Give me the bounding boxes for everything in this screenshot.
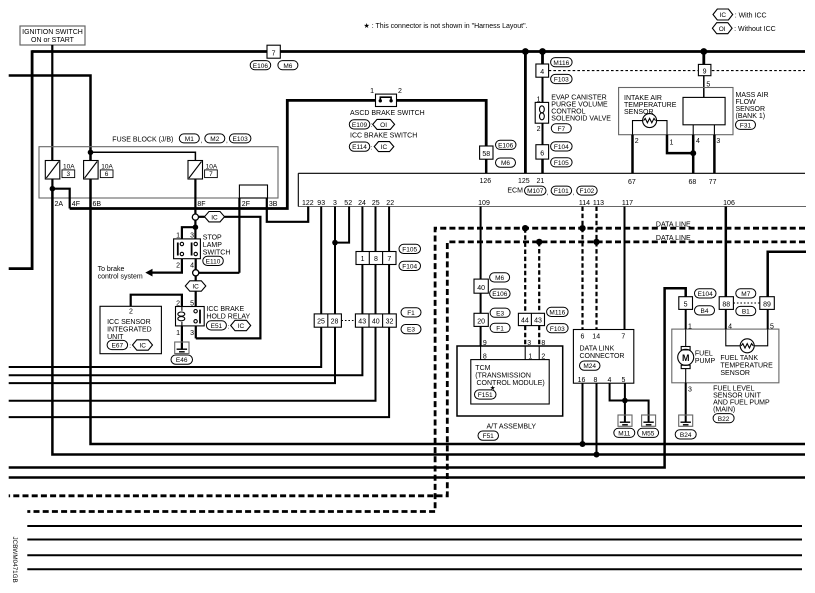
EVAP canister purge volume control solenoid valve coil [535,102,548,123]
connector row 43/40/32 [355,314,396,327]
connector F103 oval [547,324,569,333]
svg-text:SOLENOID VALVE: SOLENOID VALVE [551,115,611,122]
svg-text:5: 5 [622,377,626,384]
svg-text:117: 117 [622,200,633,207]
svg-text:M11: M11 [618,430,631,437]
svg-text:4: 4 [540,69,544,76]
svg-text:E3: E3 [496,310,504,317]
connector E104 oval [695,289,717,298]
svg-text:M: M [682,353,690,363]
connector E103 [229,134,251,143]
fuse block box [39,147,278,198]
svg-text:E106: E106 [498,142,514,149]
svg-text::: : [228,323,230,330]
svg-text:113: 113 [593,200,604,207]
svg-text:7: 7 [209,171,213,178]
wire 4F branch [52,189,69,209]
svg-text:CONTROL MODULE): CONTROL MODULE) [477,380,545,387]
wire ECM 93 to left edge [9,207,322,368]
svg-text:F103: F103 [554,77,569,84]
junction on bus for EVAP [539,48,546,55]
svg-text:10A: 10A [206,163,218,170]
svg-text:TCM: TCM [475,365,490,372]
svg-text:(BANK 1): (BANK 1) [736,113,766,120]
svg-text:To brake: To brake [98,266,125,273]
fuse F3 10A [45,161,75,180]
junction data line 2 TCM [536,239,542,245]
dashed wire to connector 44 [524,228,526,313]
branch to ground M55 [625,401,649,423]
wire 20 to A/T assembly pin 9 [480,326,482,346]
svg-text:F7: F7 [558,126,566,133]
svg-text:FUEL: FUEL [695,350,713,357]
svg-text:4: 4 [728,323,732,330]
connector F102 [577,186,598,195]
dotted link 28 to 43 [341,320,355,322]
svg-text:3: 3 [190,233,194,240]
svg-text:7: 7 [621,333,625,340]
mass air flow sensor box [619,88,733,135]
svg-text:88: 88 [722,302,730,309]
svg-text:6: 6 [540,150,544,157]
svg-text:F1: F1 [407,310,415,317]
connector F104 oval [551,142,573,151]
svg-text:126: 126 [480,178,492,185]
wire 4F bus to brake switch [70,100,376,208]
svg-text:CONNECTOR: CONNECTOR [580,353,625,360]
svg-text:HOLD RELAY: HOLD RELAY [206,314,250,321]
svg-text:122: 122 [302,200,314,207]
svg-text:4: 4 [190,263,194,270]
wire 89 feed from right edge [768,252,806,297]
wire bus to connector 9 [702,52,705,65]
svg-text:F105: F105 [402,247,417,254]
ground E46 [171,342,193,364]
TCM box [471,360,549,404]
connector M107 [525,186,549,197]
svg-text:ON or START: ON or START [31,37,75,44]
svg-text:1: 1 [370,88,374,95]
connector 20 [474,313,488,326]
wire bus to ECM pin 125 [524,52,527,174]
wire brake switch to connector 58 [397,100,487,146]
data line 1 [27,228,805,511]
connector M7 oval [736,289,756,298]
ICC sensor integrated unit E67 [100,306,161,353]
svg-text:1: 1 [176,330,180,337]
svg-text:M6: M6 [283,63,292,70]
connector E3 oval [490,308,510,317]
connector 6 [536,145,549,159]
wire ECM 106 to connector 88 [725,207,728,297]
data link connector M24 [573,330,633,384]
svg-text:FUEL LEVEL: FUEL LEVEL [713,385,754,392]
svg-text:E103: E103 [233,136,249,143]
option connector circle pin4 [193,270,199,276]
wire 8F to stop lamp switch [194,179,196,214]
stop lamp switch E110 [174,239,201,259]
svg-text:E110: E110 [206,259,221,266]
svg-text:43: 43 [534,318,542,325]
svg-text:SENSOR UNIT: SENSOR UNIT [713,392,762,399]
wire ECM 3 down [334,207,336,243]
svg-text:IC: IC [192,284,199,291]
svg-text:FUEL TANK: FUEL TANK [720,355,758,362]
wire 40 to 20 [480,293,482,313]
svg-text:B24: B24 [680,432,692,439]
svg-text:58: 58 [482,151,490,158]
svg-text:E106: E106 [253,63,269,70]
wire 88 to pin 4 [725,309,727,329]
connector 40 [474,279,488,293]
svg-text:7: 7 [272,50,276,57]
wire bus to connector 4 [541,52,544,65]
wire IAT pin 2 to ECM 67 [633,121,643,135]
svg-text:A/T ASSEMBLY: A/T ASSEMBLY [487,424,537,431]
wire branch to fuse 3 [91,152,196,161]
wire to stop lamp pin 3 [194,227,196,239]
bottom solid line 3 [27,554,802,556]
wire connector 9 to MAF pin 5 [703,76,705,98]
connector F1 oval [401,308,421,317]
wire pin3 to left edge [9,243,335,384]
wire feed to fuse 2 from left edge [9,76,91,162]
svg-text:IGNITION SWITCH: IGNITION SWITCH [22,29,83,36]
svg-text:M107: M107 [527,188,544,195]
svg-text:IC: IC [139,343,146,350]
dashed wire ECM 113 to DLC pin 14 [595,207,597,330]
wire DLC 8 down [596,383,598,454]
svg-text:1: 1 [176,233,180,240]
svg-text:2: 2 [176,300,180,307]
svg-text:DATA LINK: DATA LINK [580,346,615,353]
svg-text:8F: 8F [197,201,205,208]
svg-text:AND FUEL PUMP: AND FUEL PUMP [713,399,770,406]
svg-text:22: 22 [386,200,394,207]
fuel pump motor [678,329,694,383]
ground M11 [614,415,635,437]
wire ECM 117 to DLC pin 7 [624,207,626,330]
svg-text:109: 109 [478,200,490,207]
svg-text:77: 77 [709,179,717,186]
svg-text:M116: M116 [549,310,565,317]
wire fuel pump feed from left edge [9,288,686,467]
svg-text:B22: B22 [718,416,730,423]
wire connector4 to EVAP solenoid pin1 [542,77,544,102]
svg-text:,: , [572,190,574,197]
long line lower [9,476,805,479]
data line 2 [9,242,805,496]
junction on bus for MAF [700,48,707,55]
IC hexagon on 8F branch [199,216,205,218]
svg-text:89: 89 [763,302,771,309]
svg-text:M6: M6 [501,160,510,167]
wire 8F below circle [194,220,196,227]
svg-text:1: 1 [688,323,692,330]
wire hexagon to relay pin 5 [195,291,197,306]
wire ICC unit pin2 to relay pin 2 [131,295,182,307]
svg-text:3: 3 [66,171,70,178]
wire 6B long run to right [91,179,806,444]
svg-text:F104: F104 [554,144,569,151]
svg-text:3B: 3B [269,201,278,208]
svg-text:5: 5 [770,323,774,330]
wire connector 5 to pump pin 1 [685,309,687,329]
connector M6 oval [278,61,298,70]
wire ECM 25 to left edge [9,207,376,401]
connector E106 oval at 58 [496,140,517,149]
wire solenoid to connector 6 [542,123,544,145]
svg-text:SENSOR: SENSOR [624,109,654,116]
wire ignition to fuse 1 [51,45,53,161]
junction stop lamp feed [193,224,199,230]
junction 2A/4F [50,186,56,192]
svg-text:40: 40 [372,318,380,325]
svg-text:SWITCH: SWITCH [203,249,231,256]
svg-text:B1: B1 [742,309,750,316]
ICC brake hold relay E51 [176,307,205,326]
wire relay pin 1 to ground [181,326,183,349]
svg-text:4: 4 [696,138,700,145]
junction on bus for ECM 125 [522,48,529,55]
svg-text:PURGE VOLUME: PURGE VOLUME [551,101,608,108]
svg-text:68: 68 [689,179,697,186]
svg-text:E104: E104 [698,291,714,298]
svg-text:STOP: STOP [203,234,222,241]
wire MAF pin 3 to ECM 77 [713,125,715,135]
svg-text:M116: M116 [553,60,569,67]
ground B24 [675,415,696,439]
svg-text:DATA LINE: DATA LINE [656,221,691,228]
ignition switch source box [20,26,85,45]
svg-text::: : [129,343,131,350]
connector B1 oval [736,306,756,315]
svg-text:7: 7 [387,256,391,263]
wire DLC 4 to ground joint [610,383,625,400]
junction pins 3/52 [332,240,338,246]
svg-text:IC: IC [238,323,245,330]
svg-text:PUMP: PUMP [695,358,716,365]
svg-text:F1: F1 [496,325,504,332]
connector M116 oval [551,58,573,67]
svg-text:,: , [201,138,203,145]
wire 3B to ECM pin 122 [267,198,308,222]
svg-text:E106: E106 [492,291,508,298]
connector E3 oval [401,325,421,334]
fuse block sub connector box 2F/3B [239,185,267,198]
svg-text:E46: E46 [176,357,188,364]
connector row 44/43 [518,313,544,325]
svg-text:DATA LINE: DATA LINE [656,235,691,242]
dashed wire to connector 43 [538,242,540,313]
legend OI hexagon [712,23,775,34]
wire circle to 2F [199,272,240,274]
svg-text:ICC SENSOR: ICC SENSOR [107,319,151,326]
svg-text:M24: M24 [583,363,596,370]
wire ECM 24 to left edge [9,207,363,376]
svg-text:TEMPERATURE: TEMPERATURE [720,362,773,369]
wires A/T pins to TCM pins 1/2 [524,346,526,360]
wire ECM 22 to left edge [9,207,389,418]
svg-text:28: 28 [331,318,339,325]
wire ECM 109 to TCM [480,207,482,280]
connector 88 [719,297,733,310]
junction MAF ground [690,150,696,156]
ECM strip [298,173,806,206]
svg-text:FUSE BLOCK (J/B): FUSE BLOCK (J/B) [112,137,173,144]
svg-text:2: 2 [129,309,133,316]
svg-text:SENSOR: SENSOR [736,106,766,113]
MAF inner unit [683,97,725,124]
svg-text:IC: IC [720,12,727,19]
svg-text:25: 25 [317,318,325,325]
svg-text:E114: E114 [352,144,367,151]
wire to stop lamp pin 1 [182,227,196,239]
svg-text:TEMPERATURE: TEMPERATURE [624,102,677,109]
bottom solid line 4 [27,568,802,570]
svg-text:3: 3 [716,138,720,145]
svg-text:8: 8 [374,256,378,263]
wire ECM 52 branch [335,207,349,243]
svg-text:M7: M7 [741,291,750,298]
svg-text:F151: F151 [478,392,493,399]
svg-text:ASCD BRAKE SWITCH: ASCD BRAKE SWITCH [350,110,425,117]
connector F1 oval [490,323,510,332]
svg-text:21: 21 [537,178,545,185]
svg-text:1: 1 [361,256,365,263]
svg-text:★: ★ [490,384,496,392]
svg-text:: With ICC: : With ICC [735,12,767,19]
svg-text:★ : This connector is not show: ★ : This connector is not shown in "Harn… [364,22,528,30]
connector 5 fuel pump [679,297,693,310]
svg-text:2A: 2A [55,201,64,208]
junction fuse2/fuse3 feed [88,150,94,156]
connector 4 [536,64,549,77]
wire 58 to ECM pin 126 [485,159,488,173]
svg-text:4F: 4F [72,201,80,208]
svg-text:M55: M55 [642,430,655,437]
svg-text:JCBWM0471GB: JCBWM0471GB [11,537,18,583]
fuel tank temperature sensor thermistor [726,329,768,353]
svg-text:44: 44 [521,318,529,325]
fuse F6 10A [84,161,114,180]
svg-text:4: 4 [608,377,612,384]
svg-text:25: 25 [372,200,380,207]
svg-text:3: 3 [688,387,692,394]
connector 89 [760,297,775,310]
svg-text:5: 5 [190,300,194,307]
option connector circle 8F [192,214,198,220]
svg-text:10A: 10A [63,163,75,170]
svg-text:: Without ICC: : Without ICC [734,26,776,33]
svg-text:EVAP CANISTER: EVAP CANISTER [551,94,606,101]
svg-text:ICC BRAKE: ICC BRAKE [206,306,244,313]
connector row 1/8/7 [356,252,396,265]
svg-text:CONTROL: CONTROL [551,108,585,115]
svg-text:MASS AIR: MASS AIR [736,92,769,99]
svg-text:40: 40 [477,285,485,292]
arrow to brake control system [145,269,152,277]
svg-text:M6: M6 [495,275,504,282]
svg-text:5: 5 [684,302,688,309]
svg-text:LAMP: LAMP [203,242,222,249]
svg-text:6: 6 [105,171,109,178]
main ignition bus wire [32,50,805,53]
dotted link 88 to 89 [733,302,759,304]
svg-text:F105: F105 [554,160,569,167]
connector M6 oval at 58 [496,158,516,167]
svg-text:OI: OI [380,122,387,129]
svg-text:,: , [226,138,228,145]
connector M116 oval [547,307,569,316]
svg-text:125: 125 [518,178,530,185]
wire stop lamp pin 2 to brake control system [152,259,182,273]
wire connector 6 to ECM pin 21 [541,159,544,173]
svg-text:F103: F103 [550,326,565,333]
svg-text:INTEGRATED: INTEGRATED [107,327,152,334]
svg-text:F104: F104 [402,264,417,271]
fuel level sensor unit box [672,329,779,383]
svg-text:E67: E67 [112,343,124,350]
svg-text:3: 3 [333,200,337,207]
wire DLC 5 down [624,383,626,422]
connector F105 oval [551,158,573,167]
ground M55 [638,415,659,437]
connector M1 [179,134,202,145]
svg-text:93: 93 [317,200,325,207]
svg-text:,: , [547,190,549,197]
svg-text:INTAKE AIR: INTAKE AIR [624,95,662,102]
connector 7 on bus [267,45,280,58]
svg-text:M2: M2 [210,136,219,143]
wire DLC 16 down [582,383,584,444]
svg-text:114: 114 [579,200,590,207]
svg-text:E51: E51 [211,323,223,330]
svg-text:ECM: ECM [507,188,523,195]
svg-text:6: 6 [581,333,585,340]
svg-text:F51: F51 [483,433,495,440]
svg-text:FLOW: FLOW [736,99,757,106]
svg-text:2: 2 [176,263,180,270]
connector F105 oval [399,244,421,253]
svg-text:IC: IC [381,144,388,151]
svg-text:F31: F31 [740,122,752,129]
wire 2A long run to right [52,189,805,455]
wire IAT pin 1 joins MAF pin 4 [657,121,667,135]
svg-text:52: 52 [344,200,352,207]
svg-text:control system: control system [98,273,143,280]
wire 2F vertical [238,198,240,273]
svg-text:SENSOR: SENSOR [720,370,750,377]
svg-text:ICC BRAKE SWITCH: ICC BRAKE SWITCH [350,132,417,139]
junction data line 1 DLC [579,225,585,231]
svg-text:14: 14 [592,333,600,340]
connector E106 oval [250,61,271,70]
svg-text:2: 2 [398,88,402,95]
ASCD brake switch SW1 [370,88,402,106]
legend IC hexagon [713,9,767,20]
connector B4 oval [695,306,715,315]
connector F101 [551,186,574,197]
svg-text:(TRANSMISSION: (TRANSMISSION [475,373,531,380]
svg-text:E3: E3 [407,327,415,334]
connector E106 oval [490,289,511,298]
svg-text:67: 67 [628,179,636,186]
dashed option line from connector 4 [549,70,805,72]
wire IC branch to relay pin 3 [196,217,261,339]
svg-text:(MAIN): (MAIN) [713,406,735,413]
wire bus left branch down to left edge [9,50,32,268]
